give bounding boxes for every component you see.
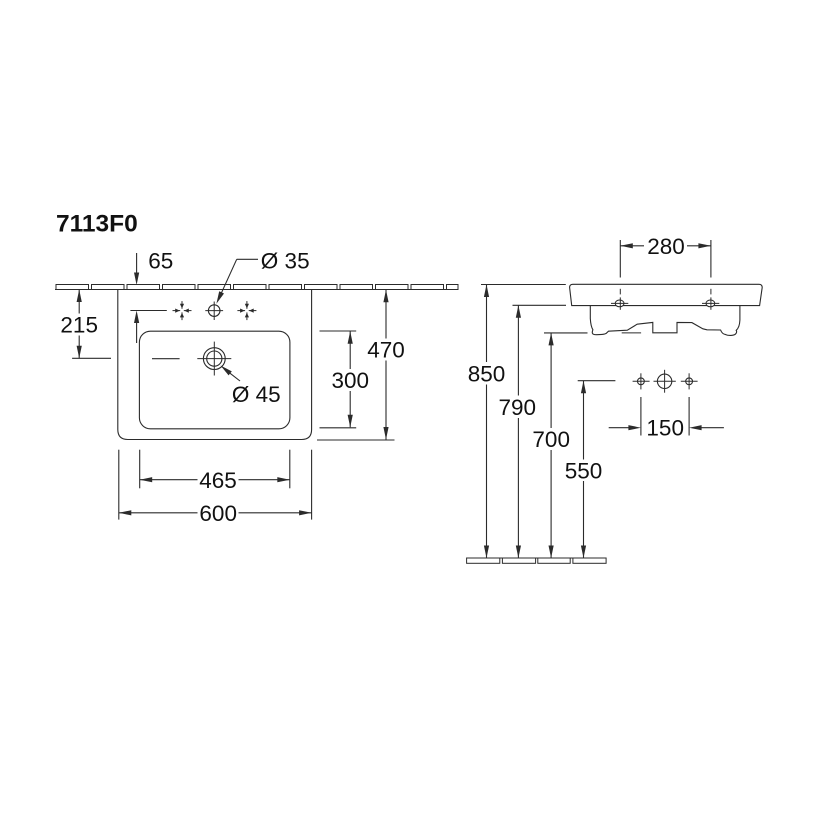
left punched hole mark <box>173 310 181 312</box>
floor tile <box>502 558 535 563</box>
basin outer outline <box>118 290 312 440</box>
svg-text:Ø 35: Ø 35 <box>261 249 310 274</box>
dimension 550 <box>578 380 616 382</box>
dimension 215 <box>78 290 80 359</box>
wall tile <box>305 285 338 290</box>
wall tile <box>56 285 89 290</box>
drain hole O45 <box>203 348 225 370</box>
front rim outline <box>570 284 763 305</box>
svg-text:65: 65 <box>148 249 173 274</box>
wall tile <box>376 285 409 290</box>
floor tile <box>573 558 606 563</box>
svg-text:280: 280 <box>647 234 685 259</box>
dimension 700 <box>544 332 588 334</box>
leader O45 <box>229 372 240 381</box>
floor tile <box>467 558 500 563</box>
tap hole O35 <box>208 305 220 317</box>
dimension 790 <box>513 304 567 306</box>
left mounting hole centerline <box>619 289 621 295</box>
wall tile <box>234 285 267 290</box>
basin bowl outline <box>139 331 290 429</box>
wall line <box>55 289 458 291</box>
left mounting hole <box>615 300 624 307</box>
right punched hole mark <box>237 310 245 312</box>
svg-text:550: 550 <box>565 459 603 484</box>
dimension 470 <box>385 290 387 440</box>
leader O35 <box>237 258 258 260</box>
svg-text:790: 790 <box>499 395 537 420</box>
left fixing hole <box>638 378 645 385</box>
dimension 150 <box>640 397 642 436</box>
wall tile <box>92 285 125 290</box>
svg-text:700: 700 <box>532 427 570 452</box>
svg-text:Ø 45: Ø 45 <box>232 382 281 407</box>
right fixing hole <box>686 378 693 385</box>
dimension 280 <box>619 240 621 278</box>
svg-text:465: 465 <box>199 468 237 493</box>
svg-text:150: 150 <box>646 415 684 440</box>
waterline mark <box>152 358 180 360</box>
right mounting hole centerline <box>710 289 712 295</box>
svg-text:470: 470 <box>367 338 405 363</box>
dimension 300 <box>349 331 351 427</box>
wall tile <box>340 285 373 290</box>
wall tile <box>127 285 160 290</box>
dimension 65 <box>136 253 138 278</box>
dimension 465 <box>139 450 141 489</box>
wall tile <box>447 285 459 290</box>
dimension 600 <box>118 450 120 520</box>
wall tile <box>163 285 196 290</box>
svg-text:850: 850 <box>468 361 506 386</box>
hidden edge <box>622 332 641 334</box>
floor tile <box>538 558 570 563</box>
svg-text:600: 600 <box>199 501 237 526</box>
wall tile <box>198 285 231 290</box>
svg-text:300: 300 <box>332 368 370 393</box>
siphon hole <box>657 374 671 388</box>
wall tile <box>411 285 444 290</box>
floor line <box>467 557 606 559</box>
dimension 850 <box>481 284 566 286</box>
svg-text:7113F0: 7113F0 <box>56 211 138 238</box>
wall tile <box>269 285 302 290</box>
svg-text:215: 215 <box>60 313 98 338</box>
right mounting hole <box>706 300 715 307</box>
front under-body outline <box>590 306 740 335</box>
